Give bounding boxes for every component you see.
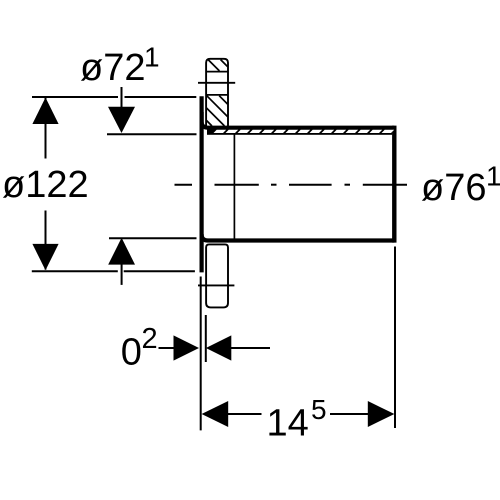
- svg-text:1: 1: [144, 42, 160, 73]
- svg-text:ø76: ø76: [421, 167, 486, 209]
- svg-text:5: 5: [311, 394, 327, 425]
- svg-text:ø122: ø122: [2, 164, 89, 206]
- svg-text:14: 14: [267, 403, 309, 445]
- svg-text:1: 1: [486, 161, 500, 192]
- svg-text:ø72: ø72: [80, 47, 145, 89]
- svg-text:2: 2: [142, 323, 158, 355]
- svg-text:0: 0: [121, 332, 142, 374]
